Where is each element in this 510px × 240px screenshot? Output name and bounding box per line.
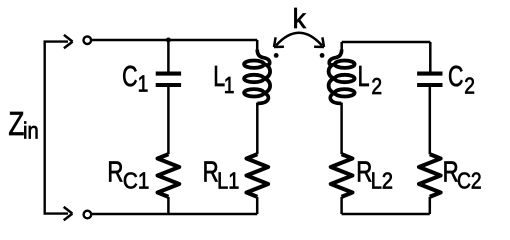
wire C2 branch top bbox=[429, 42, 432, 72]
wire top rail left bbox=[91, 39, 257, 42]
svg-text:R: R bbox=[356, 157, 372, 188]
svg-text:L2: L2 bbox=[371, 167, 393, 194]
svg-text:C1: C1 bbox=[123, 167, 149, 194]
svg-text:L: L bbox=[358, 61, 370, 93]
terminal top bbox=[84, 36, 92, 44]
wire L2 stub top with entry hook bbox=[340, 42, 343, 52]
Zin bottom arrow head bbox=[64, 207, 73, 220]
svg-text:R: R bbox=[203, 157, 219, 188]
coupling arrow k arc bbox=[276, 33, 322, 46]
inductor L2 bbox=[329, 60, 355, 96]
resistor RL2 bbox=[331, 154, 353, 197]
wire bottom rail right bbox=[342, 213, 430, 216]
wire C1 to RC1 bbox=[167, 87, 170, 154]
wire RL1 to bottom rail bbox=[256, 197, 259, 214]
capacitor C1 bbox=[156, 74, 181, 85]
wire bottom rail left bbox=[91, 213, 257, 216]
node junction dot top C1 bbox=[166, 38, 171, 43]
wire RC2 to bottom rail bbox=[429, 197, 432, 214]
wire C1 branch top bbox=[167, 40, 170, 72]
svg-text:C2: C2 bbox=[457, 168, 482, 194]
wire RL2 to bottom rail bbox=[340, 197, 343, 214]
wire top rail right bbox=[342, 41, 431, 44]
dot L1 polarity bbox=[274, 53, 279, 58]
coupling arrow right head bbox=[314, 37, 324, 47]
inductor L1 bbox=[244, 60, 270, 96]
Zin bracket bbox=[45, 42, 68, 214]
resistor RC1 bbox=[158, 154, 180, 197]
svg-text:C: C bbox=[448, 61, 463, 93]
terminal bottom bbox=[84, 211, 92, 219]
wire L1 exit to RL1 bbox=[257, 93, 268, 104]
svg-text:in: in bbox=[23, 117, 39, 144]
svg-text:k: k bbox=[293, 3, 307, 35]
svg-text:1: 1 bbox=[224, 72, 235, 98]
capacitor C2 bbox=[417, 74, 442, 85]
resistor RL1 bbox=[247, 154, 269, 197]
svg-text:Z: Z bbox=[8, 106, 24, 143]
svg-text:C: C bbox=[122, 61, 137, 93]
wire C2 to RC2 bbox=[429, 87, 432, 154]
svg-text:L1: L1 bbox=[217, 167, 239, 194]
wire L2 exit to RL2 bbox=[330, 93, 341, 104]
wire RC1 to bottom rail bbox=[167, 197, 170, 214]
Zin top arrow head bbox=[64, 35, 73, 48]
dot L2 polarity bbox=[320, 53, 325, 58]
coupling arrow left head bbox=[274, 37, 284, 47]
svg-text:1: 1 bbox=[138, 71, 149, 97]
resistor RC2 bbox=[419, 154, 441, 197]
svg-text:R: R bbox=[107, 157, 123, 188]
svg-text:2: 2 bbox=[371, 73, 382, 99]
svg-text:2: 2 bbox=[464, 73, 475, 99]
wire L1 stub top with entry hook bbox=[256, 40, 259, 52]
